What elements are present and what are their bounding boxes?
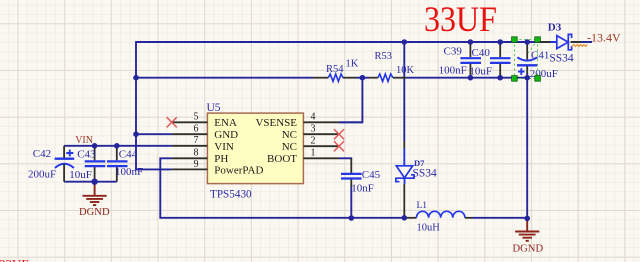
capacitor C45	[341, 158, 381, 194]
svg-text:DGND: DGND	[79, 207, 110, 218]
svg-text:3: 3	[311, 123, 316, 134]
junction (404.3,42)	[402, 39, 408, 45]
junction (470.4,42)	[468, 39, 474, 45]
resistor R54	[313, 59, 359, 82]
svg-text:200uF: 200uF	[28, 168, 56, 180]
no-connect X on pin 5	[167, 117, 177, 127]
svg-text:C42: C42	[33, 148, 51, 160]
svg-text:PowerPAD: PowerPAD	[214, 165, 263, 177]
svg-text:1K: 1K	[346, 59, 359, 70]
svg-text:D7: D7	[414, 158, 425, 168]
junction (500.2,77.7)	[497, 75, 503, 81]
wire	[571, 41, 592, 43]
compile-error squiggle	[572, 45, 587, 47]
svg-text:C44: C44	[119, 149, 138, 161]
svg-text:4: 4	[311, 111, 316, 122]
wire	[136, 77, 313, 79]
wire	[160, 158, 407, 218]
wire	[63, 145, 65, 158]
capacitor C43	[69, 146, 105, 182]
svg-text:8: 8	[194, 147, 199, 158]
wire	[350, 186, 352, 218]
IC U5 TPS5430	[167, 102, 345, 201]
svg-text:C41: C41	[531, 50, 549, 62]
svg-text:6: 6	[194, 123, 199, 134]
junction (527.2,77.7)	[524, 75, 530, 81]
svg-text:C43: C43	[77, 149, 96, 161]
svg-text:VSENSE: VSENSE	[255, 117, 297, 129]
wire	[339, 121, 362, 123]
svg-text:C45: C45	[362, 169, 381, 181]
wire	[64, 181, 117, 183]
svg-text:BOOT: BOOT	[267, 153, 297, 165]
wire	[339, 157, 352, 159]
wire	[357, 77, 370, 79]
pin 9 PowerPAD	[172, 168, 208, 170]
junction (404.3,217.8)	[402, 215, 408, 221]
svg-text:NC: NC	[282, 129, 297, 141]
junction (94.6,145.8)	[92, 143, 98, 149]
capacitor C42 (polarized)	[28, 146, 74, 182]
svg-text:VIN: VIN	[214, 141, 234, 153]
junction (136,77.7)	[133, 75, 139, 81]
wire	[136, 41, 557, 43]
svg-text:5: 5	[194, 111, 199, 122]
pin 8 PH	[172, 157, 208, 159]
capacitor C40	[469, 42, 510, 78]
capacitor C39	[439, 42, 481, 78]
svg-text:D3: D3	[548, 22, 562, 34]
svg-text:10uH: 10uH	[417, 222, 441, 233]
svg-text:C39: C39	[444, 45, 463, 57]
svg-text:10uF: 10uF	[69, 169, 92, 181]
pin 6 GND	[172, 133, 208, 135]
svg-text:PH: PH	[214, 153, 228, 165]
wire	[473, 217, 528, 219]
inductor L1	[407, 201, 473, 233]
wire	[407, 77, 527, 79]
no-connect X on pin 3	[334, 129, 344, 139]
svg-text:DGND: DGND	[513, 243, 544, 254]
junction (500.2,42)	[497, 39, 503, 45]
svg-text:9: 9	[194, 159, 199, 170]
svg-text:10K: 10K	[396, 65, 415, 76]
wire	[136, 133, 172, 135]
wire	[135, 41, 137, 170]
svg-text:SS34: SS34	[549, 52, 574, 64]
junction (351.3,218)	[349, 215, 355, 221]
pin 7 VIN	[172, 145, 208, 147]
capacitor C41 (selected, polarized)	[517, 42, 558, 80]
svg-text:1: 1	[311, 147, 316, 158]
svg-text:VIN: VIN	[75, 135, 93, 146]
junction (116.8,145.8)	[114, 143, 120, 149]
pin 3 NC	[303, 133, 339, 135]
svg-text:100nF: 100nF	[439, 64, 467, 76]
pin 5 ENA	[172, 121, 208, 123]
svg-text:U5: U5	[207, 102, 221, 114]
wire	[136, 168, 172, 170]
junction (527.2,218.4)	[524, 216, 530, 222]
svg-text:GND: GND	[214, 129, 238, 141]
svg-text:100nF: 100nF	[115, 166, 143, 178]
capacitor C44	[107, 146, 143, 182]
junction (136,134.2)	[133, 131, 139, 137]
svg-text:33UF: 33UF	[424, 0, 497, 39]
wire	[64, 145, 172, 147]
svg-text:-13.4V: -13.4V	[587, 30, 621, 44]
junction (527.2,42)	[524, 39, 530, 45]
wire	[339, 78, 362, 123]
svg-text:R54: R54	[326, 64, 344, 75]
diode D3 SS34	[540, 22, 581, 65]
svg-text:TPS5430: TPS5430	[210, 189, 252, 201]
junction (362.4,77.7)	[360, 75, 366, 81]
svg-text:SS34: SS34	[413, 168, 438, 180]
no-connect X on pin 2	[334, 141, 344, 151]
ground DGND (left)	[79, 182, 110, 218]
svg-text:10uF: 10uF	[469, 65, 492, 77]
junction (470.4,77.7)	[468, 75, 474, 81]
junction (94.6,181.7)	[91, 179, 97, 185]
ground DGND (right)	[513, 219, 544, 255]
pin 2 NC	[303, 145, 339, 147]
svg-text:L1: L1	[417, 201, 428, 211]
svg-text:33UF: 33UF	[0, 257, 29, 262]
diode D7 SS34	[396, 141, 437, 218]
svg-text:10nF: 10nF	[351, 182, 374, 194]
selection box of C41	[512, 37, 541, 81]
svg-text:C40: C40	[472, 47, 491, 59]
wire	[403, 42, 405, 141]
pin 4 VSENSE	[303, 121, 339, 123]
pin 1 BOOT	[303, 157, 339, 159]
wire	[526, 73, 528, 219]
svg-text:R53: R53	[375, 51, 393, 62]
svg-text:NC: NC	[282, 141, 297, 153]
svg-text:7: 7	[194, 135, 199, 146]
svg-text:2: 2	[311, 135, 316, 146]
resistor R53	[369, 51, 415, 81]
svg-text:ENA: ENA	[214, 117, 237, 129]
